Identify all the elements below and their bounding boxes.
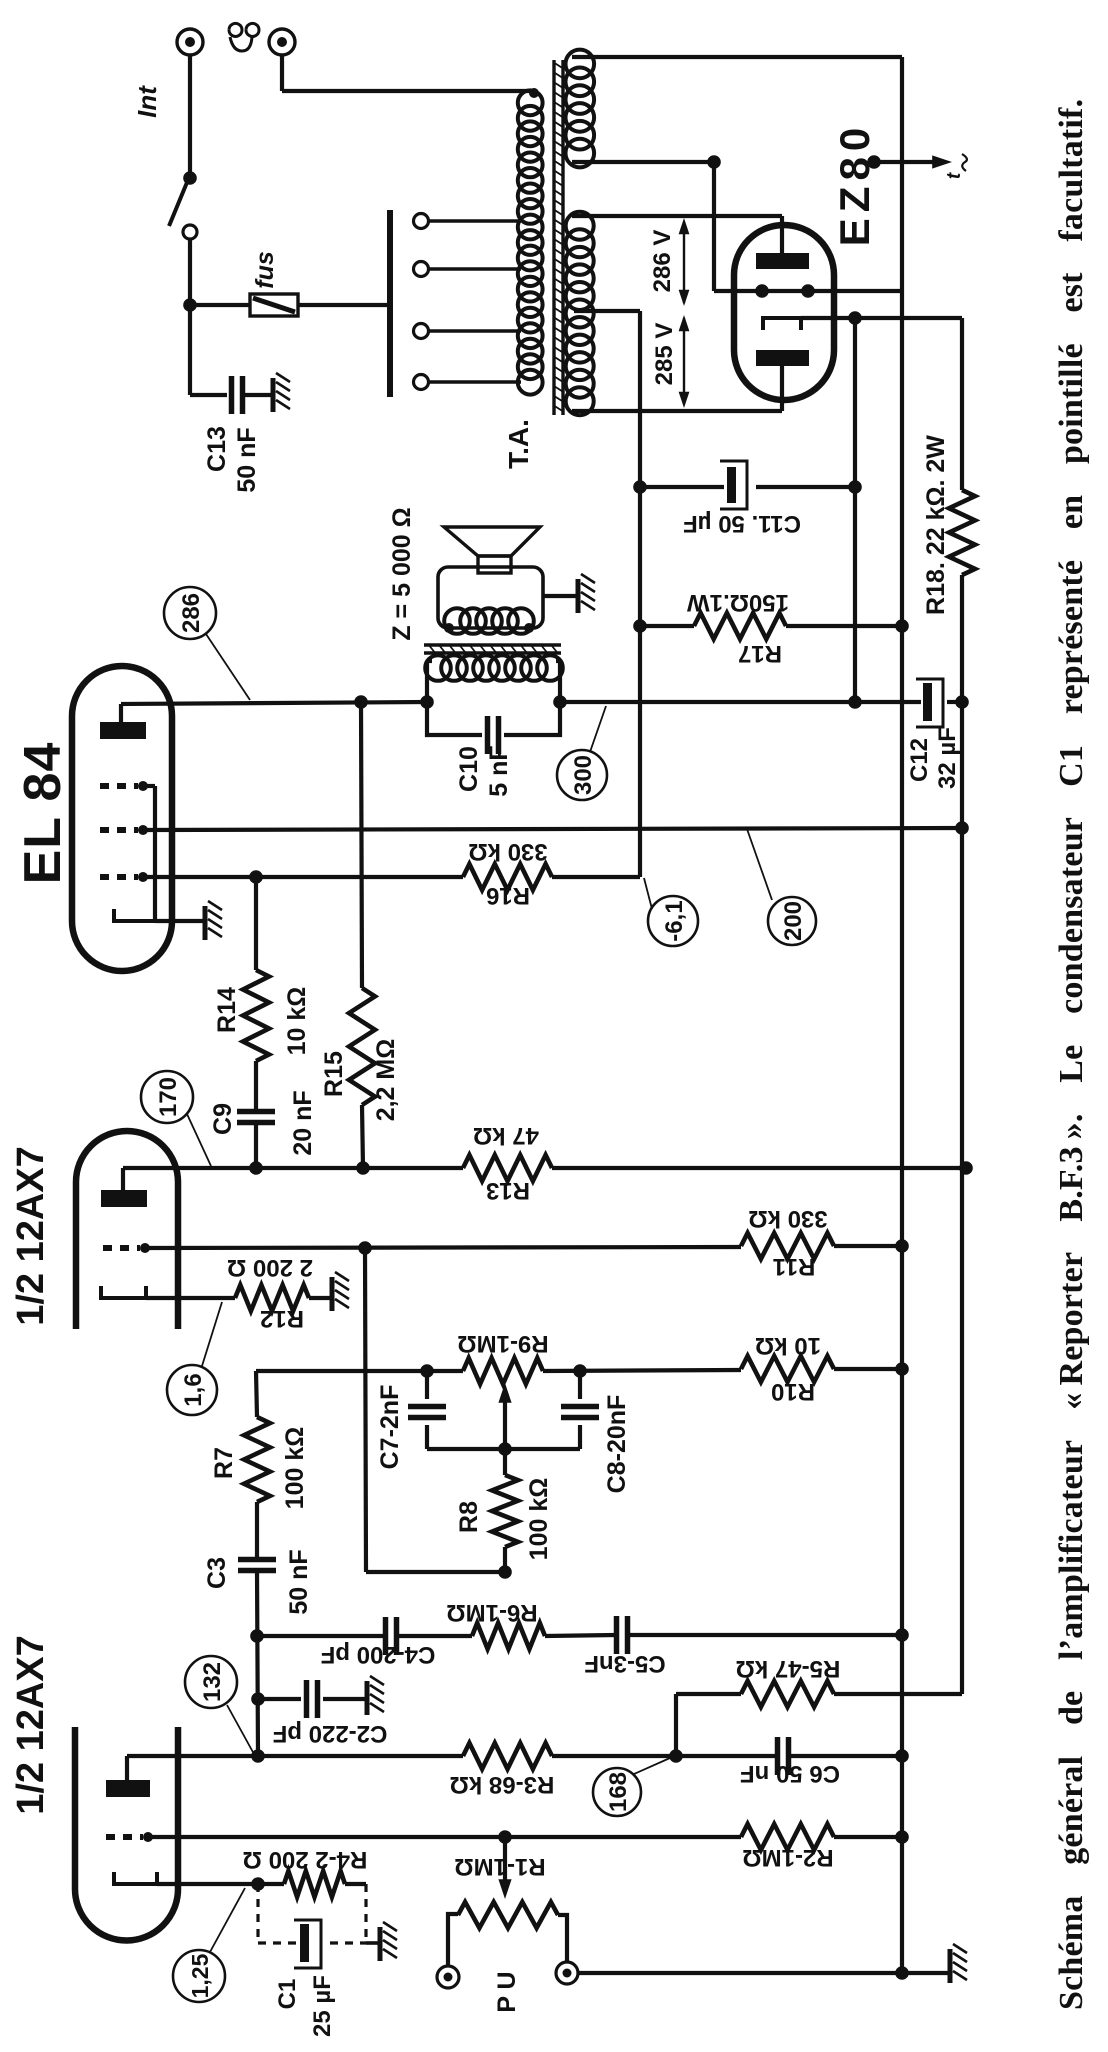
svg-text:R17: R17 — [738, 640, 782, 667]
capacitor C3 50nF — [238, 1568, 276, 1574]
input jack PU 2 — [556, 1962, 578, 1984]
leader 300 — [590, 706, 606, 752]
svg-text:R13: R13 — [486, 1177, 530, 1204]
wire jack1 to switch — [188, 55, 192, 178]
resistor R4 2200 cathode — [284, 1871, 345, 1897]
capacitor C12 32uF — [923, 683, 932, 721]
C4-R6-C5 feedback line wire — [257, 1634, 385, 1638]
wire HT left end to EZ80 plate2 — [572, 409, 782, 413]
node OT tap B+ side — [553, 695, 567, 709]
R4 to ground corner — [345, 1882, 366, 1886]
svg-text:1/2 12AX7: 1/2 12AX7 — [10, 1146, 52, 1326]
dimension arrows 285V 286V — [683, 226, 685, 303]
svg-text:100 kΩ: 100 kΩ — [281, 1427, 309, 1510]
node R15 on plate line — [354, 695, 368, 709]
svg-text:fus: fus — [251, 251, 279, 289]
wire fuse to primary bar — [298, 303, 388, 307]
svg-text:Z = 5 000 Ω: Z = 5 000 Ω — [388, 507, 416, 640]
capacitor C1 dashed branch — [256, 1884, 259, 1943]
svg-text:EZ80: EZ80 — [831, 122, 878, 246]
svg-text:100 kΩ: 100 kΩ — [525, 1478, 553, 1561]
bias rail from center tap — [638, 311, 642, 877]
svg-text:286 V: 286 V — [649, 230, 676, 293]
triode1 cathode — [114, 1872, 157, 1884]
leader -6,1 — [644, 878, 652, 909]
transformer T.A. primary winding — [518, 370, 543, 395]
wire jack2 to primary end — [280, 55, 284, 91]
capacitor C10 branch wires — [427, 702, 482, 735]
EL84 screen grid g2 dotted — [100, 827, 138, 833]
voltage circle 1,6 — [167, 1365, 217, 1415]
resistor R5 zigzag — [741, 1681, 834, 1707]
triode2 grid line — [145, 1247, 741, 1248]
capacitor C8 branch — [578, 1371, 582, 1399]
resistor R2 1M grid leak — [741, 1824, 834, 1850]
speaker magnet — [478, 556, 511, 573]
svg-text:P U: P U — [493, 1971, 521, 2012]
R1 wiper arrow — [503, 1837, 507, 1887]
wire EZ80 cathode to rail — [801, 316, 962, 320]
node OT tap plate side — [420, 695, 434, 709]
output transformer primary winding — [425, 655, 451, 681]
voltage circle 168 — [593, 1768, 641, 1816]
svg-text:C12: C12 — [906, 738, 933, 782]
mains jack terminal 1 — [177, 29, 203, 55]
OT secondary voice coil — [444, 608, 470, 634]
node riser to tone network — [358, 1241, 372, 1255]
resistor R5 47k branch wire — [674, 1694, 678, 1756]
triode2 grid dotted — [103, 1245, 140, 1251]
output tube EL84 envelope — [72, 666, 172, 971]
svg-text:R9-1MΩ: R9-1MΩ — [457, 1330, 548, 1357]
svg-text:32 µF: 32 µF — [934, 727, 961, 789]
svg-text:20 nF: 20 nF — [289, 1090, 317, 1155]
resistor R15 2.2M wire — [362, 1105, 363, 1168]
node C2 tap — [251, 1692, 265, 1706]
capacitor C6 50nF in plate line — [676, 1754, 777, 1758]
leader 286 — [206, 634, 250, 700]
node R15 tap — [356, 1161, 370, 1175]
resistor R3 68k in plate line — [463, 1743, 552, 1769]
svg-text:C5-3nF: C5-3nF — [584, 1650, 665, 1677]
svg-text:300: 300 — [570, 755, 597, 795]
triode1 grid dotted — [106, 1834, 143, 1840]
triode1 cathode wire — [157, 1882, 284, 1886]
EZ80 plate 2 — [756, 350, 809, 366]
node C1 tap — [251, 1877, 265, 1891]
leader 200 — [747, 829, 772, 900]
voltage circle 170 — [141, 1071, 193, 1123]
wire HT right end to EZ80 plate1 — [572, 214, 782, 218]
ground below speaker — [576, 579, 581, 613]
wire switch to junction — [188, 239, 192, 305]
voltage circle -6,1 — [648, 896, 698, 946]
svg-text:C7-2nF: C7-2nF — [376, 1385, 404, 1470]
svg-text:C10: C10 — [455, 746, 483, 792]
svg-text:-6,1: -6,1 — [661, 900, 688, 941]
svg-text:285 V: 285 V — [651, 323, 678, 386]
resistor R7 100k — [244, 1417, 270, 1502]
transformer HT secondary winding — [566, 387, 594, 415]
svg-text:2 200 Ω: 2 200 Ω — [227, 1254, 313, 1281]
node ground rail left end — [895, 1966, 909, 1980]
EZ80 plate 1 — [756, 253, 809, 269]
svg-text:25 µF: 25 µF — [309, 1975, 336, 2037]
speaker cone — [444, 527, 540, 556]
svg-text:C13: C13 — [203, 426, 231, 472]
switch Int — [183, 171, 197, 185]
svg-text:10 kΩ: 10 kΩ — [755, 1332, 821, 1359]
svg-text:Int: Int — [132, 85, 162, 118]
resistor R10 10k to ground — [741, 1356, 834, 1382]
svg-text:R15: R15 — [320, 1051, 348, 1097]
triode2 cathode wire — [146, 1296, 235, 1300]
capacitor C12 wires — [855, 700, 921, 704]
svg-text:168: 168 — [605, 1772, 632, 1812]
svg-text:50 nF: 50 nF — [233, 427, 261, 492]
input jack PU 1 — [437, 1966, 459, 1988]
EZ80 heater line — [714, 289, 902, 293]
node tone/R7 corner — [256, 1371, 257, 1417]
secondary B+ rail wire — [960, 575, 964, 1694]
node 168 — [669, 1749, 683, 1763]
B+ rail wire — [853, 318, 857, 702]
leader 1,6 — [202, 1302, 222, 1366]
svg-text:10 kΩ: 10 kΩ — [283, 987, 311, 1056]
svg-text:1/2 12AX7: 1/2 12AX7 — [10, 1635, 52, 1815]
wire junction to fuse — [190, 303, 250, 307]
svg-text:1,25: 1,25 — [187, 1953, 213, 1998]
wire HT center tap — [574, 309, 640, 313]
EL84 g3-cathode tie wire — [143, 784, 155, 788]
svg-text:1,6: 1,6 — [180, 1373, 207, 1406]
ground input — [948, 1949, 953, 1983]
svg-text:330 kΩ: 330 kΩ — [748, 1205, 827, 1232]
mains plug symbol — [229, 23, 259, 51]
ground below C2 — [365, 1681, 370, 1715]
svg-text:286: 286 — [178, 593, 205, 633]
svg-text:C4-200 pF: C4-200 pF — [321, 1641, 436, 1668]
capacitor C8 20nF — [561, 1415, 599, 1421]
node junction switch/fuse/C13 — [183, 298, 197, 312]
capacitor C4 200pF — [383, 1617, 389, 1655]
input ground wire — [578, 1971, 948, 1975]
C7 C8 bottom connector wire — [427, 1447, 580, 1451]
triode2 plate line 170V — [123, 1166, 463, 1170]
resistor R14 10k — [243, 970, 269, 1061]
transformer T.A. core — [552, 60, 555, 415]
svg-text:5 nF: 5 nF — [485, 745, 513, 796]
svg-text:R4-2 200 Ω: R4-2 200 Ω — [243, 1846, 368, 1873]
EL84 cathode — [114, 909, 155, 921]
speaker frame — [438, 567, 543, 628]
tone line wire — [256, 1369, 463, 1373]
triode1 plate wire — [125, 1756, 129, 1788]
mains jack terminal 2 — [269, 29, 295, 55]
triode1 grid line — [148, 1835, 741, 1839]
EL84 plate wire — [119, 704, 123, 730]
screen grid line — [143, 828, 962, 830]
transformer T.A. primary selector bar — [387, 210, 393, 397]
R12 ground wire — [309, 1296, 332, 1300]
voltage circle 200 — [768, 897, 816, 945]
EL84 control grid g1 dotted — [100, 874, 138, 880]
svg-text:R12: R12 — [260, 1305, 304, 1332]
OT primary frame wires — [425, 661, 429, 702]
EL84 plate line 286V — [121, 702, 427, 704]
triode1 plate — [106, 1780, 150, 1797]
svg-text:C6 50 nF: C6 50 nF — [740, 1760, 840, 1787]
speaker ground wire — [543, 594, 578, 598]
svg-text:R14: R14 — [213, 987, 241, 1033]
wire 300V line below OT — [560, 700, 855, 704]
svg-text:R6-1MΩ: R6-1MΩ — [446, 1599, 537, 1626]
capacitor C11 branch wires — [640, 485, 724, 489]
control grid g1 line — [143, 875, 463, 879]
EL84 plate — [100, 722, 146, 739]
svg-text:330 kΩ: 330 kΩ — [468, 838, 547, 865]
svg-text:170: 170 — [155, 1077, 182, 1117]
triode1 1/2 12AX7 envelope — [75, 1727, 178, 1941]
OT core — [424, 651, 561, 654]
leader 168 — [634, 1758, 670, 1774]
ground below EL84 cathode — [203, 906, 208, 940]
potentiometer R9 1M in tone line — [463, 1358, 543, 1384]
EZ80 cathode — [763, 318, 801, 330]
capacitor C7 2nF — [408, 1415, 446, 1421]
resistor R16 330k in g1 line — [463, 864, 552, 890]
rectifier tube EZ80 envelope — [734, 225, 834, 400]
coupling C9 / grid stopper R14 branch wire — [254, 1122, 258, 1168]
node C4 line tap — [250, 1629, 264, 1643]
node cathode/B+ rail — [848, 311, 862, 325]
voltage circle 300 — [557, 750, 607, 800]
svg-text:C1: C1 — [274, 1979, 301, 2010]
R8 wiper arrow to R9 — [503, 1397, 507, 1475]
svg-text:R16: R16 — [486, 882, 530, 909]
svg-text:2,2 MΩ: 2,2 MΩ — [372, 1039, 400, 1122]
svg-text:C8-20nF: C8-20nF — [603, 1395, 631, 1494]
leader 170 — [187, 1114, 211, 1166]
resistor R11 330k grid leak — [741, 1233, 834, 1259]
capacitor C9 20nF — [237, 1120, 275, 1126]
resistor R12 2200 — [235, 1285, 309, 1311]
EL84 grid3 dotted — [100, 783, 138, 789]
svg-text:C11. 50 µF: C11. 50 µF — [683, 510, 801, 537]
voltage circle 132 — [185, 1656, 237, 1708]
heater supply arrow tc — [867, 155, 881, 169]
primary voltage tap circles — [414, 375, 429, 390]
wire junction to C13 — [188, 305, 192, 395]
leader 132 — [227, 1705, 254, 1754]
resistor R17 — [694, 613, 786, 639]
capacitor C2 branch wire — [258, 1697, 301, 1701]
resistor R17 150ohm 1W wires — [640, 624, 694, 628]
potentiometer R1 1M wires — [448, 1914, 458, 1966]
triode1 plate line 132V — [127, 1754, 463, 1758]
svg-text:R11: R11 — [773, 1253, 816, 1280]
svg-text:t: t — [944, 172, 965, 179]
capacitor C10 5nF — [485, 716, 491, 754]
resistor R13 47k in plate line — [463, 1155, 552, 1181]
node R1 wiper junction — [498, 1830, 512, 1844]
triode2 plate wire — [121, 1168, 125, 1198]
svg-text:C9: C9 — [209, 1103, 237, 1135]
svg-text:R2-1MΩ: R2-1MΩ — [742, 1844, 833, 1871]
node plate line tube1 — [251, 1749, 265, 1763]
capacitor C5 3nF — [614, 1616, 620, 1654]
svg-text:132: 132 — [199, 1662, 226, 1702]
capacitor C13 50nF — [229, 376, 235, 414]
svg-text:EL 84: EL 84 — [14, 742, 72, 885]
svg-text:T.A.: T.A. — [503, 419, 534, 469]
svg-text:R7: R7 — [210, 1447, 238, 1479]
triode2 cathode — [101, 1286, 146, 1298]
wire rail to heater winding right end — [572, 55, 902, 59]
svg-text:R8: R8 — [455, 1501, 483, 1533]
ground rail wire — [900, 57, 904, 1973]
svg-text:200: 200 — [780, 901, 807, 941]
svg-text:R10: R10 — [771, 1378, 815, 1405]
svg-text:47 kΩ: 47 kΩ — [473, 1122, 539, 1149]
svg-text:R1-1MΩ: R1-1MΩ — [454, 1853, 545, 1880]
potentiometer R1 1M — [458, 1902, 558, 1928]
svg-text:R5-47 kΩ: R5-47 kΩ — [736, 1655, 841, 1682]
ground at R4/C1 — [378, 1927, 383, 1961]
resistor R6 1M — [472, 1623, 545, 1649]
ground below R12 — [330, 1277, 335, 1311]
resistor R18 22k 2W — [949, 490, 975, 575]
wire heater winding left end — [572, 160, 714, 164]
node C9 tap — [249, 1161, 263, 1175]
EL84 cathode ground wire — [155, 919, 205, 923]
leader 1,25 — [210, 1888, 245, 1952]
svg-text:50 nF: 50 nF — [285, 1549, 313, 1614]
grid riser wire — [365, 1248, 366, 1572]
svg-text:R18. 22 kΩ. 2W: R18. 22 kΩ. 2W — [922, 435, 950, 615]
ground below C13 — [271, 378, 276, 412]
capacitor C11 50uF — [727, 467, 736, 503]
capacitor C13 wire — [190, 393, 227, 397]
triode2 1/2 12AX7 envelope — [76, 1131, 178, 1329]
resistor R15 zigzag — [349, 988, 375, 1105]
capacitor C7 branch — [425, 1371, 429, 1399]
transformer heater secondary winding — [566, 139, 595, 168]
svg-text:150Ω.1W: 150Ω.1W — [687, 589, 789, 616]
voltage circle 286 — [164, 587, 216, 639]
capacitor C2 220pF — [304, 1680, 310, 1718]
triode2 plate — [101, 1190, 147, 1207]
svg-text:C2-220 pF: C2-220 pF — [273, 1720, 388, 1747]
fuse fus — [250, 294, 298, 316]
svg-text:Schéma général de l’amplifi: Schéma général de l’amplificateur « Repo… — [1053, 99, 1090, 2010]
svg-text:R3-68 kΩ: R3-68 kΩ — [450, 1771, 555, 1798]
svg-text:C3: C3 — [203, 1557, 231, 1589]
resistor R8 100k with wiper — [498, 1565, 512, 1579]
capacitor C1 25uF electrolytic — [300, 1924, 309, 1962]
voltage circle 1,25 — [173, 1950, 225, 2002]
